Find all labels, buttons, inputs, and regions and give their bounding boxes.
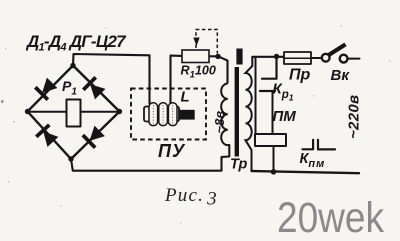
svg-text:ПМ: ПМ xyxy=(273,108,297,125)
svg-text:L: L xyxy=(181,89,190,106)
svg-text:~8в: ~8в xyxy=(212,111,227,134)
svg-text:20wek: 20wek xyxy=(277,194,384,241)
svg-text:Вк: Вк xyxy=(331,67,351,84)
svg-text:ПУ: ПУ xyxy=(158,141,186,161)
svg-text:Рис.3: Рис.3 xyxy=(164,185,218,210)
svg-text:Пр: Пр xyxy=(289,67,311,84)
svg-text:Тр: Тр xyxy=(230,157,247,173)
svg-text:~220в: ~220в xyxy=(346,95,363,139)
